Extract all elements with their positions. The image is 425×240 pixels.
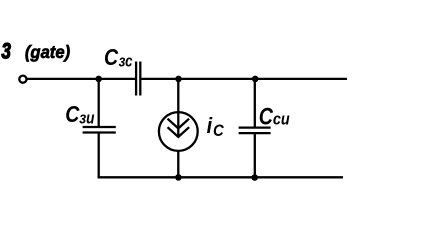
wire Ccu branch lower — [254, 134, 256, 177]
label value Cзс — [104, 44, 133, 71]
node junction dot bottom rail / source — [175, 174, 182, 181]
node junction dot top rail / source — [175, 76, 182, 83]
node junction dot bottom rail / Ccu — [251, 174, 258, 181]
svg-text:(gate): (gate) — [25, 43, 71, 62]
wire current source branch lower — [177, 151, 179, 177]
capacitor C1 Cзс (series, gate-drain) — [136, 62, 140, 96]
wire Ccu branch upper — [254, 79, 256, 127]
wire Cзи branch lower — [98, 134, 100, 179]
node junction dot top rail / Ccu — [252, 76, 259, 83]
svg-text:зс: зс — [119, 52, 133, 71]
svg-text:C: C — [213, 122, 224, 140]
node junction dot top rail / Cзи — [95, 76, 102, 83]
wire Cзи branch upper — [98, 79, 100, 126]
terminal З (gate) — [19, 76, 26, 83]
current source arrowhead chevron 1 — [168, 119, 190, 129]
svg-text:C: C — [104, 44, 119, 70]
svg-text:C: C — [65, 102, 80, 128]
svg-text:cu: cu — [273, 111, 290, 129]
label value iC — [207, 114, 225, 140]
current source U1 iC circle — [159, 112, 198, 151]
label value Cзи — [65, 102, 95, 128]
wire bottom rail — [98, 176, 343, 178]
capacitor C2 Cзи (shunt, gate-source) — [83, 127, 116, 133]
current source arrowhead chevron 2 — [168, 127, 190, 137]
label node З (gate) — [1, 40, 70, 65]
label value Cси — [259, 102, 290, 130]
svg-text:3: 3 — [1, 40, 11, 65]
wire top rail right segment — [141, 78, 347, 80]
wire top rail left segment — [27, 78, 135, 80]
capacitor C3 Cси (shunt, drain-source) — [239, 128, 271, 134]
wire current source branch upper — [177, 79, 179, 137]
svg-text:зu: зu — [79, 109, 95, 128]
svg-text:C: C — [259, 102, 274, 130]
